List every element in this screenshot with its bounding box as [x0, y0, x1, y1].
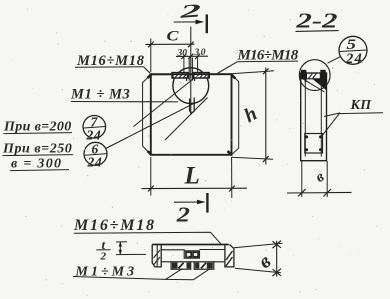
h tick top	[263, 68, 269, 74]
corner weld mark bottom-left	[148, 151, 152, 155]
stirrup dots	[305, 135, 322, 151]
v dimension line (section)	[287, 191, 352, 194]
t/2 ext bottom	[116, 253, 146, 255]
svg-text:h: h	[241, 102, 261, 127]
top anchor plate bump left	[301, 70, 306, 73]
svg-text:24: 24	[87, 154, 103, 169]
cut line 2 top	[174, 21, 203, 23]
leader M1-M3 branch 2	[194, 269, 210, 280]
leader detail to 5/24	[328, 56, 342, 63]
nut square left	[186, 252, 191, 257]
hatch diagonal D1	[134, 74, 201, 127]
inner plate line right (KP)	[320, 79, 322, 157]
svg-text:5: 5	[347, 36, 356, 52]
bottom view face line right	[200, 249, 225, 251]
bolt head rect left	[171, 262, 191, 269]
bottom view body	[152, 245, 229, 262]
right end cap	[225, 245, 234, 267]
weld fill triangle in detail	[313, 79, 327, 90]
svg-text:С: С	[167, 27, 180, 44]
leader M16-M18 mid	[217, 62, 237, 74]
top band fill left	[301, 73, 307, 79]
leader-underline M1-M3	[71, 101, 178, 103]
hatch diagonal D2	[165, 98, 208, 141]
svg-text:в: в	[254, 250, 275, 273]
v dim skewed ext top (bottom view)	[234, 243, 283, 248]
top anchor plate bump right	[320, 70, 325, 73]
C tick left	[148, 42, 154, 48]
svg-text:М1 ÷ М3: М1 ÷ М3	[70, 86, 130, 102]
svg-text:При в=250: При в=250	[2, 141, 72, 156]
centerline bolt	[190, 27, 192, 116]
washer circle	[173, 68, 209, 104]
leader 6/24 to hook	[106, 102, 196, 148]
underline 2-2	[296, 30, 339, 33]
t/2 arrow up	[119, 242, 122, 247]
svg-text:в: в	[313, 169, 327, 186]
weld diagonal in column	[303, 79, 325, 92]
v ext line left (section)	[301, 161, 303, 197]
svg-text:30: 30	[194, 48, 208, 58]
v dim line (bottom view)	[276, 241, 278, 277]
anchor plate left	[172, 73, 189, 78]
anchor plate right	[193, 73, 209, 78]
leader M16-M18 to corner	[144, 67, 152, 75]
nut rect	[184, 251, 199, 258]
t/2 fraction	[96, 237, 110, 263]
cut arrow 2 bottom	[197, 200, 206, 205]
L dimension line	[142, 187, 248, 189]
svg-text:в = 300: в = 300	[11, 156, 62, 171]
top band hatch	[309, 73, 317, 78]
svg-text:30: 30	[177, 48, 188, 58]
weld tick	[305, 79, 307, 82]
h tick bottom	[263, 156, 269, 162]
svg-text:КП: КП	[350, 98, 373, 113]
underline Pri v=250	[3, 155, 74, 156]
svg-text:24: 24	[86, 127, 102, 142]
svg-text:L: L	[184, 163, 200, 190]
detail circle	[299, 60, 330, 91]
leader KP 2	[322, 113, 340, 136]
svg-text:2-2: 2-2	[295, 9, 338, 33]
30-30 dimension line	[176, 55, 208, 57]
plate outline main view	[151, 74, 232, 155]
C tick right	[188, 42, 194, 48]
position circle 5/24	[339, 36, 367, 67]
h dimension line	[265, 68, 267, 165]
top band fill right	[320, 73, 327, 79]
bottom view face line left	[161, 249, 185, 251]
underline v=300	[10, 170, 69, 171]
v tick right (section)	[323, 189, 331, 196]
L tick left	[148, 186, 154, 192]
30 ext line right	[197, 56, 199, 72]
leader-underline M1-M3 bottom	[73, 277, 194, 280]
nut square right	[193, 252, 198, 257]
C dimension line	[146, 43, 195, 45]
svg-text:2: 2	[178, 0, 201, 22]
v tick bottom (bottom view)	[273, 269, 282, 277]
v dim skewed ext bottom (bottom view)	[235, 268, 281, 273]
underline M16-M18 mid	[237, 60, 298, 63]
underline Pri v=200	[4, 133, 73, 134]
L tick right	[229, 186, 235, 192]
svg-text:М16÷М18: М16÷М18	[73, 217, 156, 234]
t/2 ext top	[116, 241, 127, 243]
anchor loop hook	[190, 98, 195, 113]
corner weld mark top-left	[148, 74, 152, 78]
cut arrow 2 top	[196, 20, 205, 25]
cut bar 2 top	[206, 14, 208, 33]
position circle 6/24	[84, 141, 107, 169]
cut line 2 bottom	[174, 201, 205, 203]
v tick left (section)	[298, 189, 306, 196]
bolt shaft lines	[189, 58, 192, 81]
leader M1-M3 branch 1	[166, 269, 183, 280]
leader M16-M18 bottom	[74, 232, 221, 244]
corner weld mark top-right	[231, 74, 235, 78]
top band line	[301, 78, 327, 80]
h ext line top	[232, 71, 275, 74]
v ext line right (section)	[326, 161, 328, 197]
column outline	[301, 73, 327, 161]
svg-text:2: 2	[176, 204, 190, 227]
h ext line bottom	[232, 157, 273, 159]
L ext line left	[150, 157, 152, 196]
svg-text:При в=200: При в=200	[3, 119, 72, 134]
t/2 arrow down	[119, 250, 122, 255]
position circle 7/24	[83, 114, 106, 142]
stirrup rect	[305, 134, 323, 154]
left bevel contour	[143, 75, 151, 155]
svg-text:24: 24	[345, 51, 363, 67]
cut bar 2 bottom	[206, 193, 208, 213]
top edge re-stroke	[151, 73, 232, 75]
left end cap	[152, 245, 161, 267]
inner plate line left (KP)	[304, 79, 306, 157]
30 ext line left	[183, 56, 185, 72]
bolt head rect right	[194, 262, 214, 269]
svg-text:2: 2	[100, 251, 107, 263]
right bevel contour	[232, 75, 239, 155]
t/2 dim line	[119, 242, 121, 255]
plate flange ticks	[187, 78, 195, 81]
underline KP	[339, 112, 384, 115]
v tick top (bottom view)	[273, 241, 282, 249]
underline M16-M18	[75, 66, 144, 69]
L ext line right	[231, 157, 233, 198]
corner weld mark bottom-right	[228, 151, 232, 155]
C extension line left	[150, 39, 152, 73]
30 ticks	[181, 54, 200, 59]
leader KP 1	[324, 113, 340, 117]
